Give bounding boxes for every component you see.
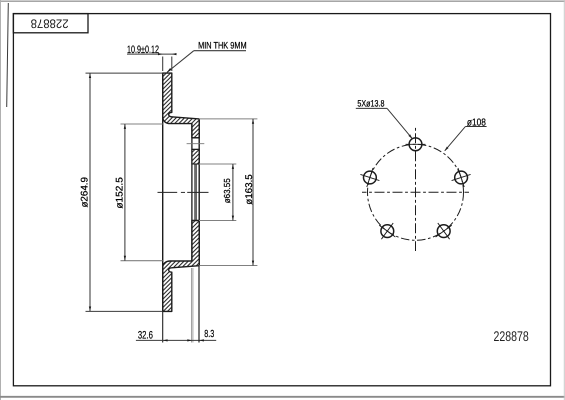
svg-text:32.6: 32.6 [138, 330, 153, 342]
dimension Ø63.55 (centre bore diameter) [199, 164, 236, 221]
friction ring and hat crown, upper half (hatched section) [163, 73, 200, 138]
dimension 32.6 (overall depth) [136, 268, 216, 343]
bolt hole left with centre ticks [360, 168, 379, 187]
dimension Ø152.5 (friction surface inner diameter) [115, 124, 163, 261]
dimension 10.9±0.12 (disc thickness) [127, 44, 177, 71]
scan artifact: left edge line [0, 0, 2, 400]
friction ring and hat crown, lower half (hatched section) [163, 221, 200, 312]
scan artifact: stray fold line top-left [7, 3, 9, 107]
note MIN THK 9MM with leader [167, 40, 247, 73]
dimension Ø264.9 (outer diameter) [80, 73, 163, 311]
title block box top-left [13, 14, 88, 33]
svg-text:ø264.9: ø264.9 [80, 177, 91, 208]
svg-text:228878: 228878 [494, 328, 529, 344]
centre bore upper edge [192, 163, 199, 165]
visible edge: disc outboard face [162, 73, 164, 311]
bore chamfer edge left [194, 164, 196, 221]
label Ø108 with leader [444, 118, 486, 152]
svg-text:ø63.55: ø63.55 [222, 178, 232, 203]
scan artifact: top edge line [0, 0, 565, 2]
bolt hole top with centre tick [406, 138, 426, 151]
bolt circle Ø108 (dash-dot) [368, 144, 464, 240]
bolt hole bottom-right with centre ticks [436, 223, 452, 239]
bolt hole right with centre ticks [452, 168, 471, 187]
dimension Ø163.5 (hub flange diameter) [199, 119, 257, 266]
svg-text:ø152.5: ø152.5 [115, 177, 126, 209]
scan artifact: bottom edge line [0, 396, 565, 398]
bolt hole upper edge in section [192, 137, 199, 139]
svg-text:10.9±0.12: 10.9±0.12 [127, 44, 159, 56]
label 5XØ13.8 with leader [356, 99, 413, 140]
section view main centreline (dash-dot) [158, 191, 209, 193]
bolt hole lower edge in section [192, 148, 199, 150]
dimension 8.3 (flange thickness) [199, 266, 215, 343]
visible edge: hub mounting face front [198, 119, 200, 266]
scan artifact: right edge line [563, 0, 565, 400]
visible edge: hat inner surface [191, 124, 193, 261]
svg-text:8.3: 8.3 [204, 329, 214, 340]
svg-text:ø108: ø108 [467, 118, 486, 129]
vertical centreline [415, 128, 417, 252]
bore chamfer edge right [195, 164, 197, 221]
hub flange segment between bolt hole and centre bore (hatched) [192, 149, 199, 164]
centre bore lower edge [192, 220, 199, 222]
bolt hole bottom-left with centre ticks [379, 223, 395, 239]
svg-text:MIN THK 9MM: MIN THK 9MM [198, 40, 247, 51]
svg-text:ø163.5: ø163.5 [244, 174, 255, 205]
bolt hole centreline in section [187, 143, 205, 145]
horizontal centreline [362, 191, 469, 193]
svg-text:228878: 228878 [31, 16, 69, 30]
svg-text:5Xø13.8: 5Xø13.8 [357, 99, 384, 109]
